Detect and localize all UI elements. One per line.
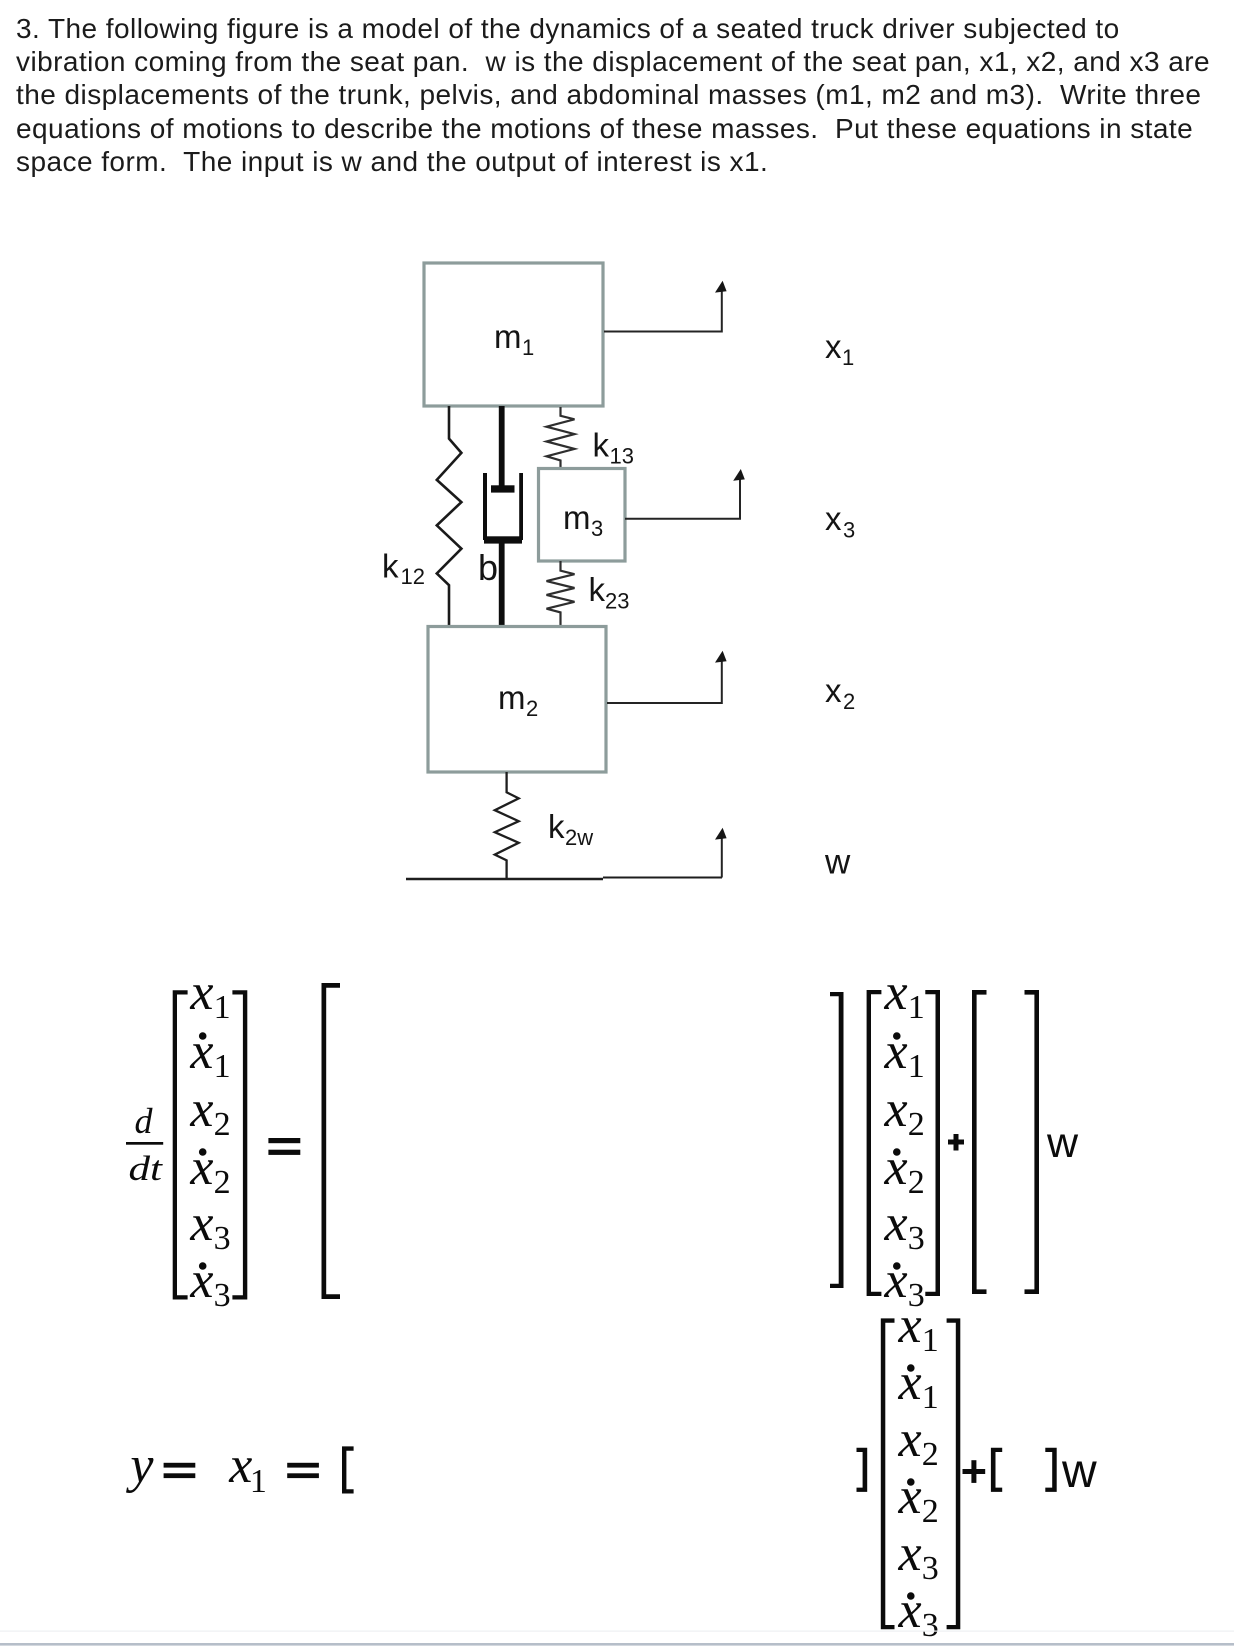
svg-text:x: x — [898, 1354, 922, 1411]
svg-text:1: 1 — [908, 989, 925, 1026]
svg-text:x: x — [228, 1437, 252, 1494]
svg-text:2w: 2w — [565, 825, 593, 850]
svg-text:x: x — [884, 1023, 908, 1080]
svg-text:d: d — [135, 1101, 154, 1141]
svg-text:k: k — [589, 571, 606, 608]
equation 2: C matrix open bracket — [342, 1446, 354, 1493]
svg-text:y: y — [125, 1437, 154, 1494]
label k12 — [382, 548, 425, 590]
svg-text:2: 2 — [922, 1493, 939, 1530]
svg-text:x: x — [189, 1195, 213, 1252]
equation 2: D matrix open bracket — [991, 1448, 1002, 1492]
wire w takeoff arrow — [715, 828, 727, 878]
damper b — [483, 406, 523, 627]
svg-text:12: 12 — [401, 564, 425, 589]
equation 2: plus sign — [963, 1460, 986, 1483]
svg-text:k: k — [382, 548, 399, 585]
svg-text:x: x — [189, 1139, 213, 1196]
svg-text:x: x — [884, 1139, 908, 1196]
svg-text:x: x — [189, 964, 213, 1021]
svg-text:2: 2 — [908, 1164, 925, 1201]
svg-text:x: x — [825, 500, 842, 537]
spring k2w — [495, 772, 519, 879]
svg-text:k: k — [548, 808, 565, 845]
svg-text:x: x — [884, 1081, 908, 1138]
svg-text:b: b — [478, 547, 498, 588]
svg-text:m: m — [498, 679, 526, 716]
mass m1 — [424, 263, 603, 406]
ground seat pan line — [406, 878, 722, 880]
svg-text:3: 3 — [922, 1550, 939, 1587]
spring k23 — [547, 561, 575, 627]
problem statement paragraph — [16, 12, 1210, 179]
svg-text:2: 2 — [843, 689, 855, 714]
svg-text:3: 3 — [843, 518, 855, 543]
equation 2: y = x1 = — [125, 1437, 319, 1500]
svg-text:x: x — [898, 1525, 922, 1582]
svg-text:x: x — [898, 1582, 922, 1639]
equation 1: plus sign — [948, 1134, 964, 1151]
svg-text:x: x — [189, 1023, 213, 1080]
svg-text:x: x — [898, 1411, 922, 1468]
spring k12 — [437, 406, 462, 627]
svg-text:3: 3 — [214, 1220, 231, 1257]
svg-text:x: x — [189, 1252, 213, 1309]
svg-text:m: m — [563, 499, 591, 536]
svg-text:2: 2 — [922, 1436, 939, 1473]
svg-text:2: 2 — [214, 1164, 231, 1201]
svg-text:x: x — [884, 964, 908, 1021]
svg-text:x: x — [825, 328, 842, 365]
mass m2 — [428, 627, 606, 773]
label b — [478, 547, 498, 588]
svg-text:13: 13 — [610, 444, 634, 469]
svg-text:3: 3 — [214, 1277, 231, 1314]
svg-text:w: w — [1046, 1119, 1079, 1167]
svg-text:1: 1 — [842, 345, 854, 370]
svg-text:3: 3 — [591, 516, 603, 541]
label w — [824, 843, 851, 882]
equation 1: B matrix close bracket — [1025, 990, 1040, 1294]
equation 2: C matrix close bracket — [857, 1448, 868, 1492]
label x2 — [825, 672, 855, 714]
svg-text:1: 1 — [922, 1379, 939, 1416]
svg-text:1: 1 — [908, 1048, 925, 1085]
wire x1 takeoff arrow — [604, 281, 727, 332]
spring k13 — [547, 407, 575, 474]
label x3 — [825, 500, 855, 543]
label k2w — [548, 808, 593, 850]
label x1 — [825, 328, 854, 370]
equation 1: state vector (right) — [867, 964, 940, 1314]
svg-text:1: 1 — [522, 335, 534, 360]
svg-text:1: 1 — [250, 1463, 267, 1500]
svg-text:x: x — [189, 1081, 213, 1138]
equation 1: d/dt fraction — [126, 1101, 164, 1188]
svg-text:2: 2 — [526, 696, 538, 721]
wire x2 takeoff arrow — [607, 651, 727, 703]
svg-text:2: 2 — [908, 1106, 925, 1143]
equation 1: A matrix close bracket — [830, 992, 844, 1288]
equation 2: state vector — [881, 1297, 961, 1644]
equation 1: input w — [1046, 1119, 1079, 1167]
label k23 — [589, 571, 630, 614]
svg-text:1: 1 — [214, 1048, 231, 1085]
equation 1: A matrix open bracket — [322, 983, 341, 1299]
svg-text:w: w — [1061, 1445, 1097, 1498]
equation 1: B matrix open bracket — [972, 990, 987, 1294]
svg-text:x: x — [884, 1195, 908, 1252]
svg-text:3: 3 — [922, 1607, 939, 1644]
svg-text:2: 2 — [214, 1106, 231, 1143]
label k13 — [593, 427, 634, 469]
svg-text:3: 3 — [908, 1220, 925, 1257]
svg-text:dt: dt — [129, 1150, 164, 1188]
equation 2: input w — [1061, 1445, 1097, 1498]
svg-text:x: x — [898, 1468, 922, 1525]
equation 1: state vector d/dt [x1 x1dot x2 x2dot x3 x3dot] — [173, 964, 248, 1314]
page bottom divider line — [0, 1631, 1234, 1646]
wire x3 takeoff arrow — [625, 469, 745, 519]
equation 1: equals sign — [268, 1138, 300, 1155]
svg-text:w: w — [824, 843, 851, 882]
svg-text:m: m — [494, 318, 522, 355]
svg-text:1: 1 — [922, 1322, 939, 1359]
mass m3 — [539, 469, 626, 562]
equation 2: D matrix close bracket — [1045, 1448, 1056, 1492]
svg-text:k: k — [593, 427, 610, 464]
svg-text:x: x — [898, 1297, 922, 1354]
svg-text:23: 23 — [605, 589, 629, 614]
svg-text:x: x — [825, 672, 842, 709]
svg-text:1: 1 — [214, 989, 231, 1026]
